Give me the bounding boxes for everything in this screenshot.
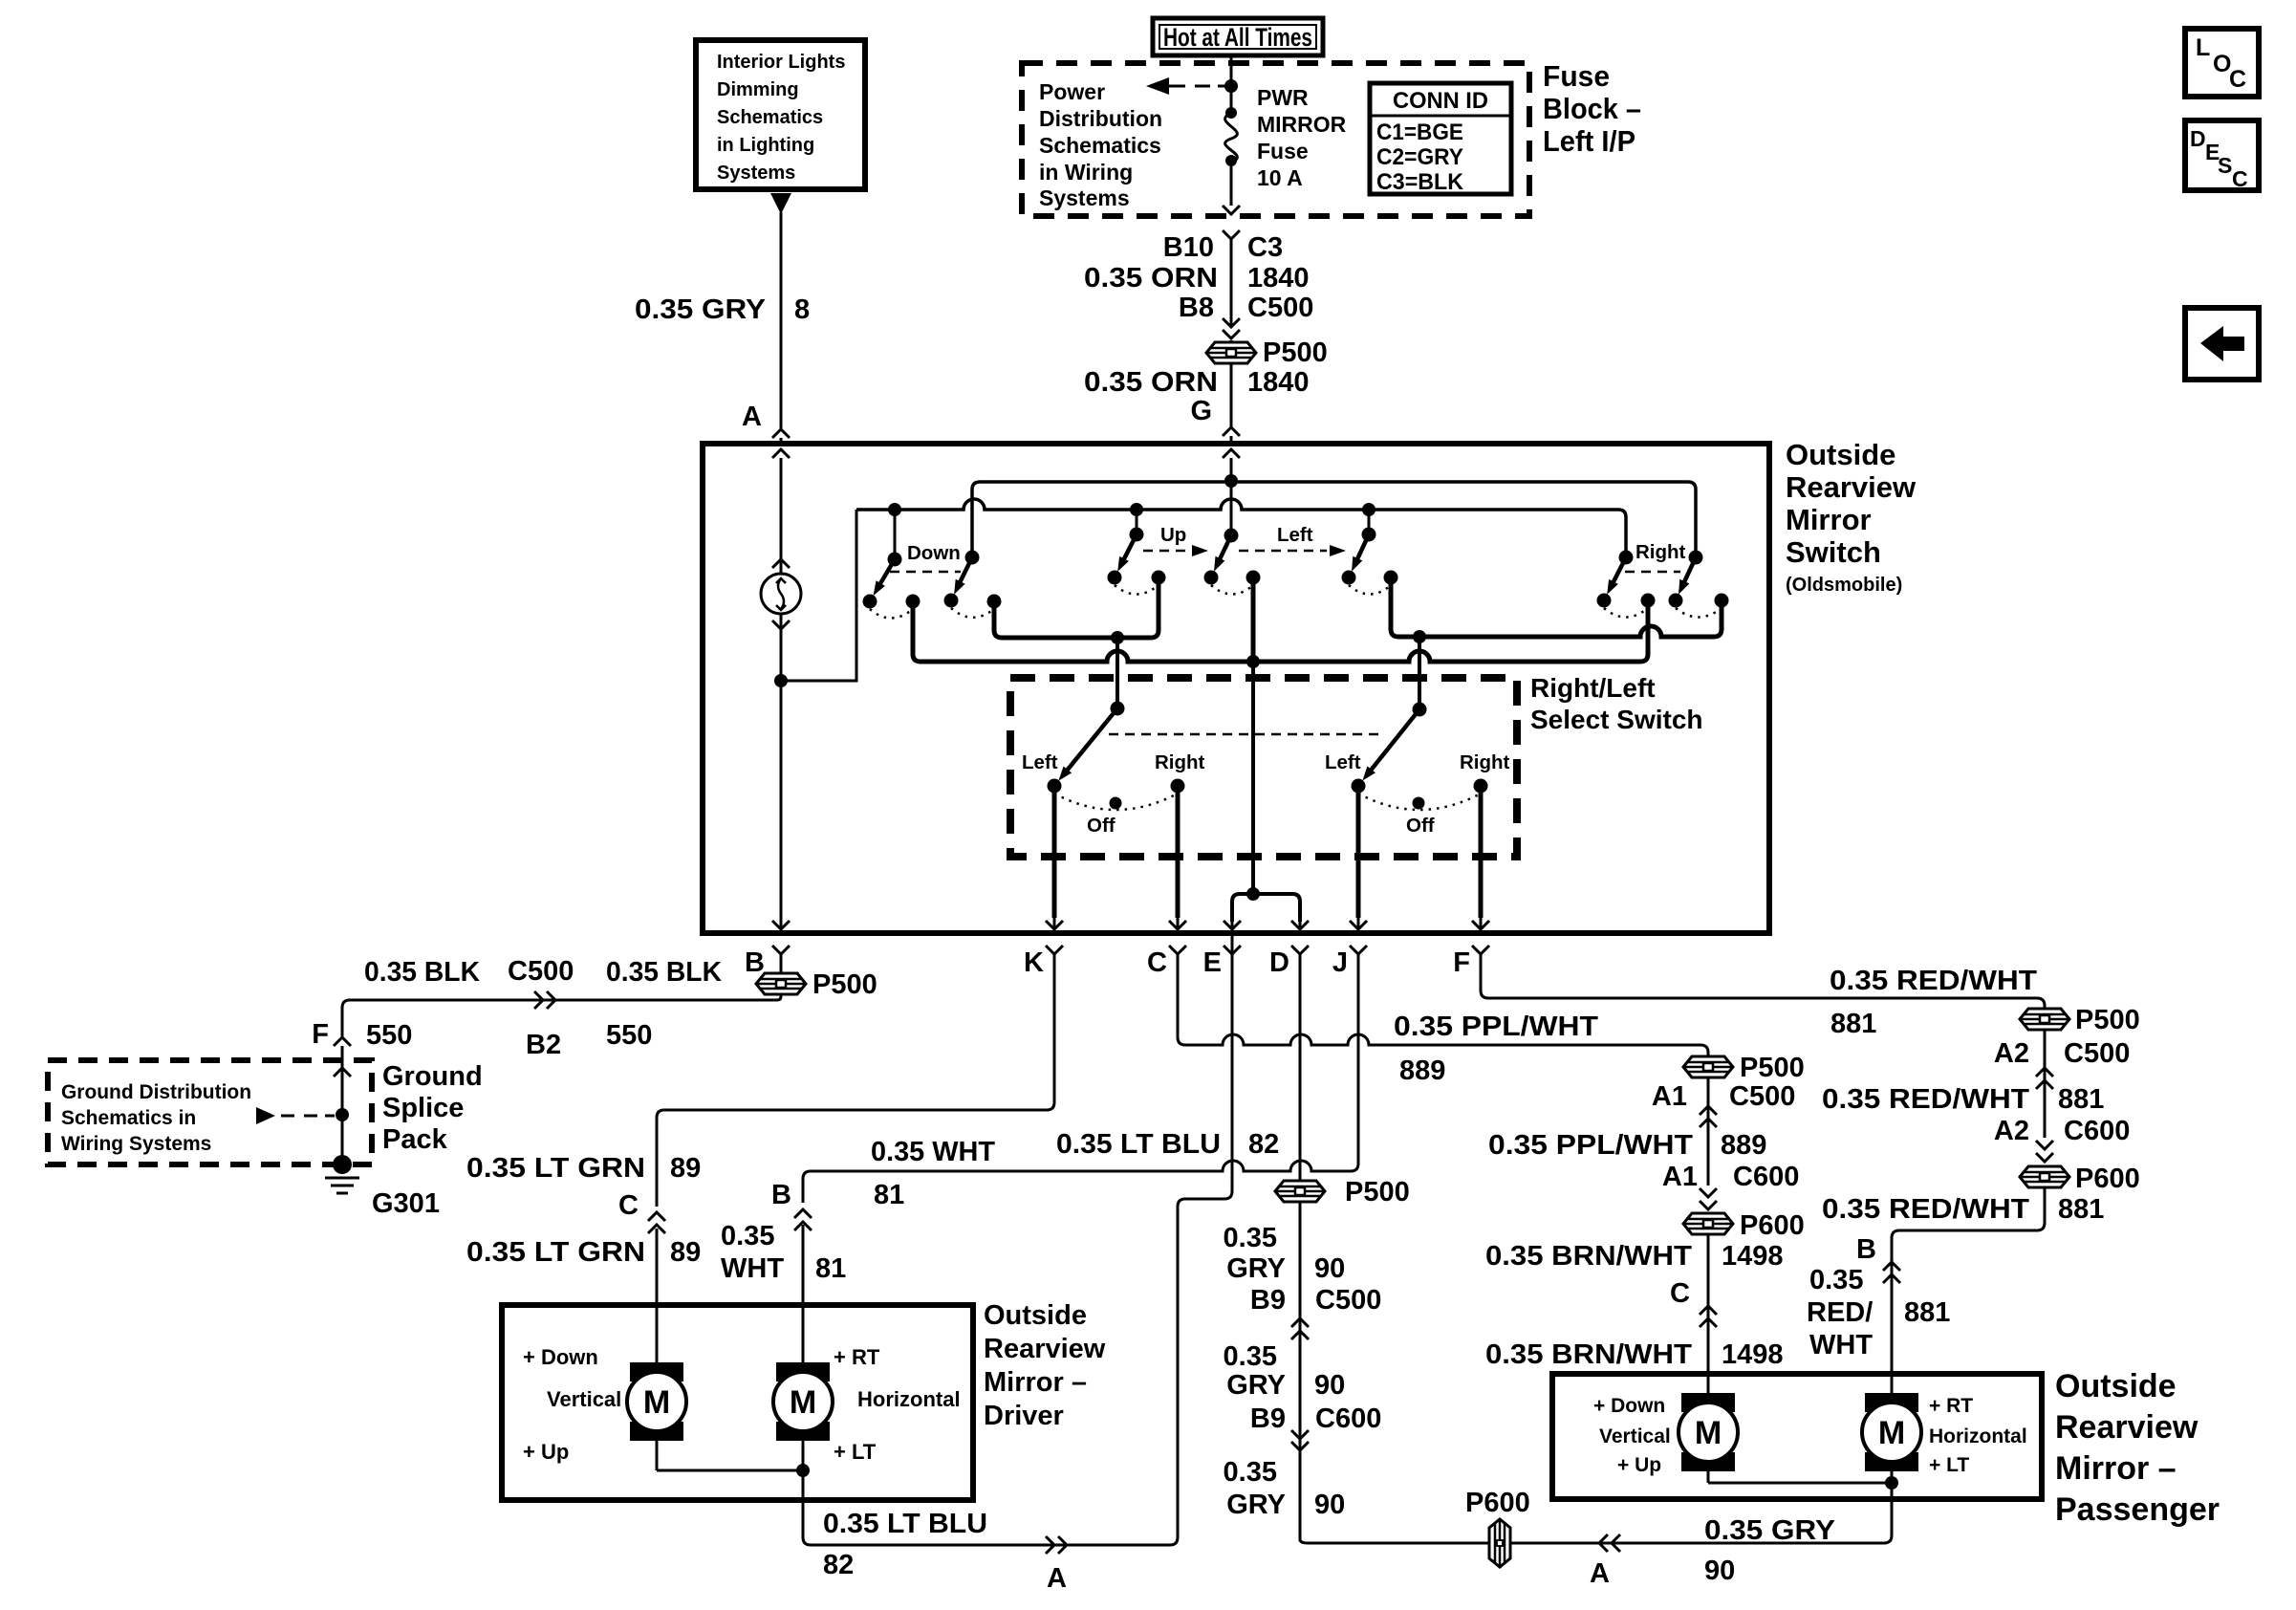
arrow into box at pin A (772, 449, 790, 458)
svg-text:0.35 BRN/WHT: 0.35 BRN/WHT (1485, 1339, 1692, 1370)
svg-text:Rearview: Rearview (984, 1334, 1106, 1364)
svg-text:J: J (1332, 947, 1348, 978)
wire WHT into driver box (802, 1225, 805, 1362)
svg-text:C500: C500 (1729, 1081, 1795, 1112)
passenger vertical motor M1 (1681, 1393, 1735, 1412)
wire ORN 1840 lower (1230, 363, 1233, 426)
connector chevron at pin G (1223, 427, 1240, 436)
svg-text:881: 881 (1904, 1297, 1950, 1328)
right switch left contacts (1597, 594, 1612, 608)
svg-text:P500: P500 (1345, 1177, 1410, 1207)
svg-text:L: L (2196, 34, 2210, 61)
wire stub into switch pin A (780, 438, 783, 446)
svg-text:B: B (771, 1180, 791, 1210)
up dashed indicator (1143, 550, 1189, 553)
svg-text:C: C (2232, 166, 2248, 191)
right switch right contacts (1669, 594, 1683, 608)
connector A chevrons on GRY run (1599, 1534, 1608, 1552)
svg-text:0.35: 0.35 (721, 1221, 774, 1251)
svg-text:C: C (618, 1190, 639, 1221)
svg-text:0.35 LT BLU: 0.35 LT BLU (1056, 1129, 1221, 1160)
svg-text:Schematics in: Schematics in (61, 1107, 196, 1129)
svg-text:P600: P600 (2075, 1164, 2140, 1194)
connector chevron below pin C (1169, 946, 1186, 954)
P500 splice on PPL wire (1683, 1056, 1733, 1077)
lamp feed wire lower (780, 613, 783, 681)
svg-text:K: K (1024, 947, 1044, 978)
svg-text:0.35 RED/WHT: 0.35 RED/WHT (1822, 1194, 2029, 1225)
wire select-right Left contact to pin J (1356, 786, 1361, 918)
svg-text:+ Up: + Up (523, 1440, 569, 1464)
svg-text:P500: P500 (1263, 337, 1328, 368)
svg-text:0.35 BLK: 0.35 BLK (606, 957, 722, 988)
svg-text:Left: Left (1022, 751, 1058, 773)
dashed reference arrow to ground splice (256, 1107, 275, 1124)
wire GRY 8 vertical (780, 212, 783, 428)
svg-text:90: 90 (1704, 1556, 1735, 1586)
svg-text:C: C (2229, 66, 2246, 93)
svg-text:89: 89 (670, 1237, 701, 1268)
svg-text:Passenger: Passenger (2055, 1491, 2220, 1528)
P500 splice connector on ORN wire (1206, 342, 1256, 363)
arrow at switch pin K (1053, 918, 1056, 928)
DESC nav box (2185, 120, 2259, 190)
left switch contacts (1342, 571, 1356, 585)
select-right contacts (1352, 779, 1366, 794)
tee junction dot (1246, 887, 1260, 901)
left switch right arm (1362, 528, 1376, 542)
up switch right arm (1224, 529, 1239, 543)
svg-text:Hot at All Times: Hot at All Times (1163, 23, 1312, 52)
wire GRY bottom run (1300, 1483, 1892, 1543)
svg-text:0.35 ORN: 0.35 ORN (1084, 367, 1218, 398)
down switch right contacts (944, 594, 959, 608)
svg-text:0.35: 0.35 (1224, 1223, 1277, 1253)
svg-text:Systems: Systems (717, 163, 795, 184)
svg-text:0.35: 0.35 (1224, 1341, 1277, 1372)
P600 splice on BRN wire (1683, 1213, 1733, 1234)
wire BRN/WHT into passenger box (1707, 1372, 1710, 1395)
Hot at All Times header box (1153, 18, 1323, 55)
connector chevrons C500 RED (2036, 1068, 2053, 1077)
arrow at switch pin F (1480, 918, 1483, 928)
outside rearview mirror passenger box (1552, 1374, 2042, 1499)
wire select-left Left contact to pin K (1052, 786, 1057, 918)
outside rearview mirror switch box (703, 444, 1769, 933)
up switch left contacts (1108, 571, 1122, 585)
arrow into ground distribution box (334, 1068, 351, 1077)
svg-text:0.35: 0.35 (1224, 1457, 1277, 1488)
svg-text:G301: G301 (372, 1188, 440, 1219)
svg-text:WHT: WHT (721, 1253, 784, 1284)
right switch left contact arc (1604, 608, 1648, 618)
svg-text:Mirror –: Mirror – (984, 1367, 1087, 1398)
svg-text:+ LT: + LT (834, 1440, 877, 1464)
svg-text:Right/Left: Right/Left (1530, 673, 1656, 703)
svg-text:Outside: Outside (1786, 438, 1895, 471)
svg-text:P500: P500 (2075, 1005, 2140, 1035)
wire up-right contact to common (1251, 577, 1256, 662)
wire pin E to driver common (803, 922, 1232, 1545)
svg-text:Outside: Outside (984, 1300, 1087, 1331)
svg-text:A1: A1 (1652, 1081, 1687, 1112)
svg-text:81: 81 (874, 1180, 904, 1210)
P500 splice on BLK wire (756, 973, 806, 994)
connector chevron below pin F (1472, 946, 1489, 954)
svg-text:0.35 LT GRN: 0.35 LT GRN (466, 1153, 645, 1184)
svg-text:M: M (1878, 1415, 1905, 1451)
svg-text:C500: C500 (2064, 1038, 2130, 1069)
connector chevron below pin D (1291, 946, 1309, 954)
svg-text:B8: B8 (1179, 293, 1214, 323)
svg-text:0.35 PPL/WHT: 0.35 PPL/WHT (1488, 1130, 1693, 1161)
P500 splice on GRY wire (1275, 1181, 1325, 1202)
ground splice junction dot (336, 1108, 349, 1121)
svg-text:G: G (1190, 396, 1212, 426)
svg-text:P500: P500 (812, 969, 877, 1000)
select-left pivot and arm (1111, 702, 1125, 716)
svg-text:Driver: Driver (984, 1401, 1064, 1431)
right switch right contact arc (1676, 608, 1722, 618)
svg-text:550: 550 (606, 1020, 652, 1051)
common mid bus (913, 600, 1648, 662)
svg-text:90: 90 (1314, 1253, 1345, 1284)
left switch right stem (1368, 510, 1371, 534)
up switch right contacts (1204, 571, 1219, 585)
svg-text:C3=BLK: C3=BLK (1376, 169, 1464, 195)
svg-text:C600: C600 (1315, 1403, 1381, 1434)
passenger motor common wires (1707, 1469, 1710, 1483)
wire into P500 splice (1230, 340, 1233, 342)
svg-text:Up: Up (1160, 524, 1186, 546)
connector A chevrons on LT BLU (1046, 1536, 1054, 1554)
net down-right to up-left contact (vertical select feed left) (994, 577, 1159, 638)
wire pin J to driver mirror (803, 954, 1358, 1203)
svg-text:Mirror: Mirror (1786, 503, 1872, 536)
svg-text:881: 881 (1830, 1009, 1876, 1039)
junction dot select-right feed (1413, 630, 1426, 643)
svg-text:81: 81 (815, 1253, 846, 1284)
connector chevron at pin A (772, 429, 790, 438)
svg-text:Right: Right (1155, 751, 1205, 773)
wire common to ED tee (1251, 662, 1255, 894)
svg-text:Schematics: Schematics (717, 107, 823, 128)
wire select-left pivot feed (1116, 638, 1119, 708)
svg-text:C: C (1670, 1278, 1690, 1309)
bus2 dots (888, 503, 901, 516)
svg-text:Select Switch: Select Switch (1530, 705, 1703, 734)
connector chevron below pin J (1350, 946, 1367, 954)
svg-text:Wiring Systems: Wiring Systems (61, 1133, 211, 1155)
CONN ID table box (1370, 83, 1511, 194)
arrow at fuse block exit (1223, 206, 1240, 214)
select-right contact arc (1358, 794, 1481, 810)
svg-text:0.35 LT GRN: 0.35 LT GRN (466, 1237, 645, 1268)
right-left select switch dashed box (1010, 678, 1517, 857)
svg-text:89: 89 (670, 1153, 701, 1184)
illumination lamp (761, 574, 801, 614)
svg-text:(Oldsmobile): (Oldsmobile) (1786, 575, 1902, 596)
svg-text:Dimming: Dimming (717, 79, 799, 100)
svg-text:C500: C500 (508, 956, 574, 987)
svg-text:Systems: Systems (1039, 185, 1130, 210)
svg-text:0.35 RED/WHT: 0.35 RED/WHT (1822, 1084, 2029, 1115)
interior lights dimming note box (696, 40, 865, 189)
wire from hot box into fuse (1230, 55, 1233, 113)
svg-text:Splice: Splice (382, 1093, 464, 1123)
switch bus 2 (lower feed bus) (856, 499, 1626, 557)
svg-text:F: F (312, 1019, 329, 1050)
svg-text:Outside: Outside (2055, 1368, 2177, 1404)
svg-text:E: E (1203, 947, 1222, 978)
outside rearview mirror driver box (502, 1305, 973, 1500)
down dashed indicator (890, 571, 961, 574)
svg-text:C600: C600 (2064, 1116, 2130, 1146)
svg-text:+ Down: + Down (1593, 1395, 1665, 1417)
svg-text:0.35 WHT: 0.35 WHT (871, 1137, 995, 1167)
svg-text:C600: C600 (1733, 1162, 1799, 1192)
wire pin K to driver mirror (657, 954, 1054, 1207)
svg-text:C: C (1147, 947, 1167, 978)
select-right off contact (1413, 797, 1425, 810)
right switch left arm (1619, 551, 1634, 565)
select dashed indicator (1109, 733, 1384, 736)
svg-text:A1: A1 (1662, 1162, 1698, 1192)
select-right pivot and arm (1413, 703, 1427, 717)
connector chevrons C500 GRY (1291, 1318, 1309, 1327)
P600 splice on RED wire (2020, 1166, 2069, 1187)
wire G to up-right arm pivot (1230, 458, 1233, 535)
svg-text:90: 90 (1314, 1370, 1345, 1401)
svg-text:A: A (1590, 1558, 1610, 1589)
wire stub into switch pin G (1230, 436, 1233, 446)
svg-text:Distribution: Distribution (1039, 106, 1162, 131)
net left-right to right-right contact (horizontal select feed right) (1391, 577, 1722, 637)
connector chevrons on BRN/WHT (1700, 1306, 1717, 1315)
svg-text:P600: P600 (1740, 1210, 1805, 1241)
wire GRY below P500 (1299, 1202, 1302, 1541)
svg-text:MIRROR: MIRROR (1257, 112, 1347, 137)
svg-text:GRY: GRY (1226, 1370, 1286, 1401)
fuse element PWR MIRROR 10A (1225, 107, 1237, 119)
svg-text:B2: B2 (526, 1030, 561, 1060)
wire pin D upper (1299, 954, 1302, 1181)
svg-text:C500: C500 (1247, 293, 1313, 323)
LOC nav box (2185, 29, 2259, 97)
svg-text:1840: 1840 (1247, 263, 1310, 294)
svg-text:0.35 BLK: 0.35 BLK (364, 957, 480, 988)
wire ORN 1840 upper (1230, 239, 1233, 325)
connector chevron below pin K (1046, 946, 1063, 954)
svg-text:RED/: RED/ (1807, 1297, 1873, 1328)
lamp chevron upper (772, 559, 790, 568)
up switch left arm (1130, 528, 1144, 542)
wire select-right Right contact to pin F (1479, 786, 1484, 918)
wire PPL below P500 (1707, 1077, 1710, 1186)
svg-text:WHT: WHT (1809, 1330, 1873, 1360)
arrow at switch pin E (1231, 918, 1234, 928)
svg-text:0.35 LT BLU: 0.35 LT BLU (823, 1509, 987, 1539)
svg-text:Vertical: Vertical (547, 1387, 621, 1411)
svg-text:+ Down: + Down (523, 1345, 598, 1369)
svg-text:Left: Left (1277, 524, 1313, 546)
connector chevrons on LT GRN (648, 1212, 665, 1221)
svg-text:8: 8 (794, 294, 810, 325)
svg-text:B9: B9 (1250, 1285, 1286, 1316)
svg-text:Pack: Pack (382, 1124, 448, 1155)
wire RED to passenger box (1892, 1187, 2045, 1395)
svg-text:Fuse: Fuse (1257, 139, 1309, 163)
wire lamp junction to bus corner (781, 510, 856, 681)
svg-text:Power: Power (1039, 79, 1105, 104)
CONN ID divider (1370, 115, 1511, 118)
svg-text:Fuse: Fuse (1543, 59, 1610, 93)
connector chevron below pin E (1224, 946, 1241, 954)
wire BLK 550 run (342, 995, 781, 1036)
ground terminal dot (333, 1155, 352, 1174)
connector chevrons C500 PPL (1700, 1106, 1717, 1115)
off-page arrow from interior lights box (770, 193, 791, 214)
svg-text:0.35 GRY: 0.35 GRY (635, 294, 766, 325)
driver horizontal motor M2 (776, 1362, 830, 1382)
svg-text:+ LT: + LT (1929, 1454, 1969, 1476)
down switch right arm (965, 551, 980, 565)
connector chevron below fuse block (1223, 230, 1240, 239)
arrow at switch pin C (1177, 918, 1180, 928)
svg-text:1498: 1498 (1722, 1339, 1784, 1370)
svg-text:P500: P500 (1740, 1053, 1805, 1083)
svg-text:M: M (643, 1384, 670, 1421)
lamp feed wire upper (780, 458, 783, 575)
down switch left contact arc (870, 609, 913, 619)
svg-text:1840: 1840 (1247, 367, 1310, 398)
up switch left stem (1136, 510, 1138, 534)
svg-text:CONN ID: CONN ID (1393, 88, 1488, 114)
select-left contact arc (1054, 794, 1178, 810)
svg-text:889: 889 (1399, 1055, 1445, 1086)
arrow at switch pin B (780, 918, 783, 928)
connector C500 crossing chevrons (1223, 318, 1240, 327)
ground symbol G301 (325, 1177, 359, 1180)
svg-text:M: M (790, 1384, 816, 1421)
svg-text:A: A (1047, 1563, 1067, 1594)
svg-text:0.35 BRN/WHT: 0.35 BRN/WHT (1485, 1241, 1692, 1272)
svg-text:in Lighting: in Lighting (717, 135, 814, 156)
svg-text:0.35 RED/WHT: 0.35 RED/WHT (1830, 966, 2037, 996)
switch bus 1 (upper feed bus) (972, 482, 1696, 557)
connector C500 B2 chevrons (534, 991, 543, 1009)
svg-text:+ RT: + RT (1929, 1395, 1973, 1417)
svg-text:B10: B10 (1163, 232, 1214, 263)
svg-text:Right: Right (1460, 751, 1510, 773)
svg-text:D: D (2190, 126, 2206, 151)
svg-text:Ground: Ground (382, 1061, 483, 1092)
wire LT GRN into driver box (656, 1229, 659, 1362)
svg-text:1498: 1498 (1722, 1241, 1784, 1272)
dashed reference arrow to power distribution (1146, 77, 1169, 95)
svg-text:Vertical: Vertical (1599, 1425, 1671, 1447)
svg-text:0.35: 0.35 (1809, 1265, 1863, 1295)
right switch right stem (1695, 490, 1698, 557)
svg-text:10 A: 10 A (1257, 165, 1303, 190)
svg-text:Mirror –: Mirror – (2055, 1450, 2177, 1487)
svg-text:Rearview: Rearview (2055, 1409, 2199, 1446)
connector chevrons C600 GRY (1291, 1430, 1309, 1439)
svg-text:881: 881 (2058, 1084, 2104, 1115)
svg-text:0.35 ORN: 0.35 ORN (1084, 263, 1218, 294)
passenger horizontal motor M2 (1865, 1393, 1918, 1412)
svg-text:C500: C500 (1315, 1285, 1381, 1316)
svg-text:889: 889 (1721, 1130, 1766, 1161)
left switch contact arc (1349, 585, 1391, 595)
fuse block dashed outline (1022, 63, 1529, 216)
connector chevron below pin B (772, 946, 790, 954)
svg-text:PWR: PWR (1257, 85, 1309, 110)
svg-text:Schematics: Schematics (1039, 133, 1161, 158)
arrow at switch pin D (1299, 918, 1302, 928)
up switch right contact arc (1211, 585, 1253, 595)
wire pin C to passenger chain (1178, 954, 1708, 1056)
wire from fuse to box edge (1230, 161, 1233, 206)
svg-text:Block –: Block – (1543, 92, 1641, 125)
svg-text:A2: A2 (1994, 1038, 2029, 1069)
svg-text:82: 82 (1248, 1129, 1279, 1160)
svg-text:Interior Lights: Interior Lights (717, 52, 845, 73)
svg-text:A: A (742, 402, 762, 432)
svg-text:Left I/P: Left I/P (1543, 124, 1635, 158)
svg-text:Left: Left (1325, 751, 1361, 773)
bus1 dot at G feed (1224, 474, 1238, 488)
connector chevrons C600 RED (2036, 1141, 2053, 1149)
svg-text:0.35 PPL/WHT: 0.35 PPL/WHT (1394, 1012, 1598, 1042)
svg-text:C1=BGE: C1=BGE (1376, 120, 1463, 145)
down switch left contacts (863, 595, 877, 609)
right switch right arm (1689, 551, 1703, 565)
svg-text:Down: Down (907, 542, 961, 564)
svg-text:Off: Off (1087, 815, 1116, 837)
svg-text:in Wiring: in Wiring (1039, 160, 1133, 185)
svg-text:GRY: GRY (1226, 1490, 1286, 1520)
junction dot select-left feed (1111, 631, 1124, 644)
wire BRN/WHT upper (1707, 1234, 1710, 1372)
select-left contacts (1048, 779, 1062, 794)
right dashed indicator (1625, 571, 1680, 574)
lamp chevron lower (772, 620, 790, 629)
up switch left contact arc (1115, 585, 1159, 595)
wire into ground splice pack (341, 1046, 344, 1164)
back arrow icon (2200, 326, 2244, 361)
svg-text:82: 82 (823, 1550, 854, 1580)
svg-text:Rearview: Rearview (1786, 470, 1917, 504)
wire pin F to P500 (1481, 954, 2045, 1009)
svg-text:M: M (1695, 1415, 1722, 1451)
svg-text:881: 881 (2058, 1194, 2104, 1225)
svg-text:90: 90 (1314, 1490, 1345, 1520)
svg-text:P600: P600 (1465, 1488, 1530, 1518)
svg-text:GRY: GRY (1226, 1253, 1286, 1284)
wire pin B to P500 (780, 954, 783, 973)
driver vertical motor M1 (630, 1362, 683, 1382)
driver motor common wires (656, 1441, 659, 1470)
svg-text:0.35 GRY: 0.35 GRY (1704, 1515, 1835, 1546)
P500 splice on RED wire (2020, 1009, 2069, 1030)
svg-text:A2: A2 (1994, 1116, 2029, 1146)
driver common junction dot (796, 1464, 810, 1477)
arrow into box at pin G (1223, 449, 1240, 458)
svg-text:+ RT: + RT (834, 1345, 880, 1369)
passenger common junction dot (1885, 1476, 1898, 1490)
wire pin B vertical (780, 681, 783, 918)
